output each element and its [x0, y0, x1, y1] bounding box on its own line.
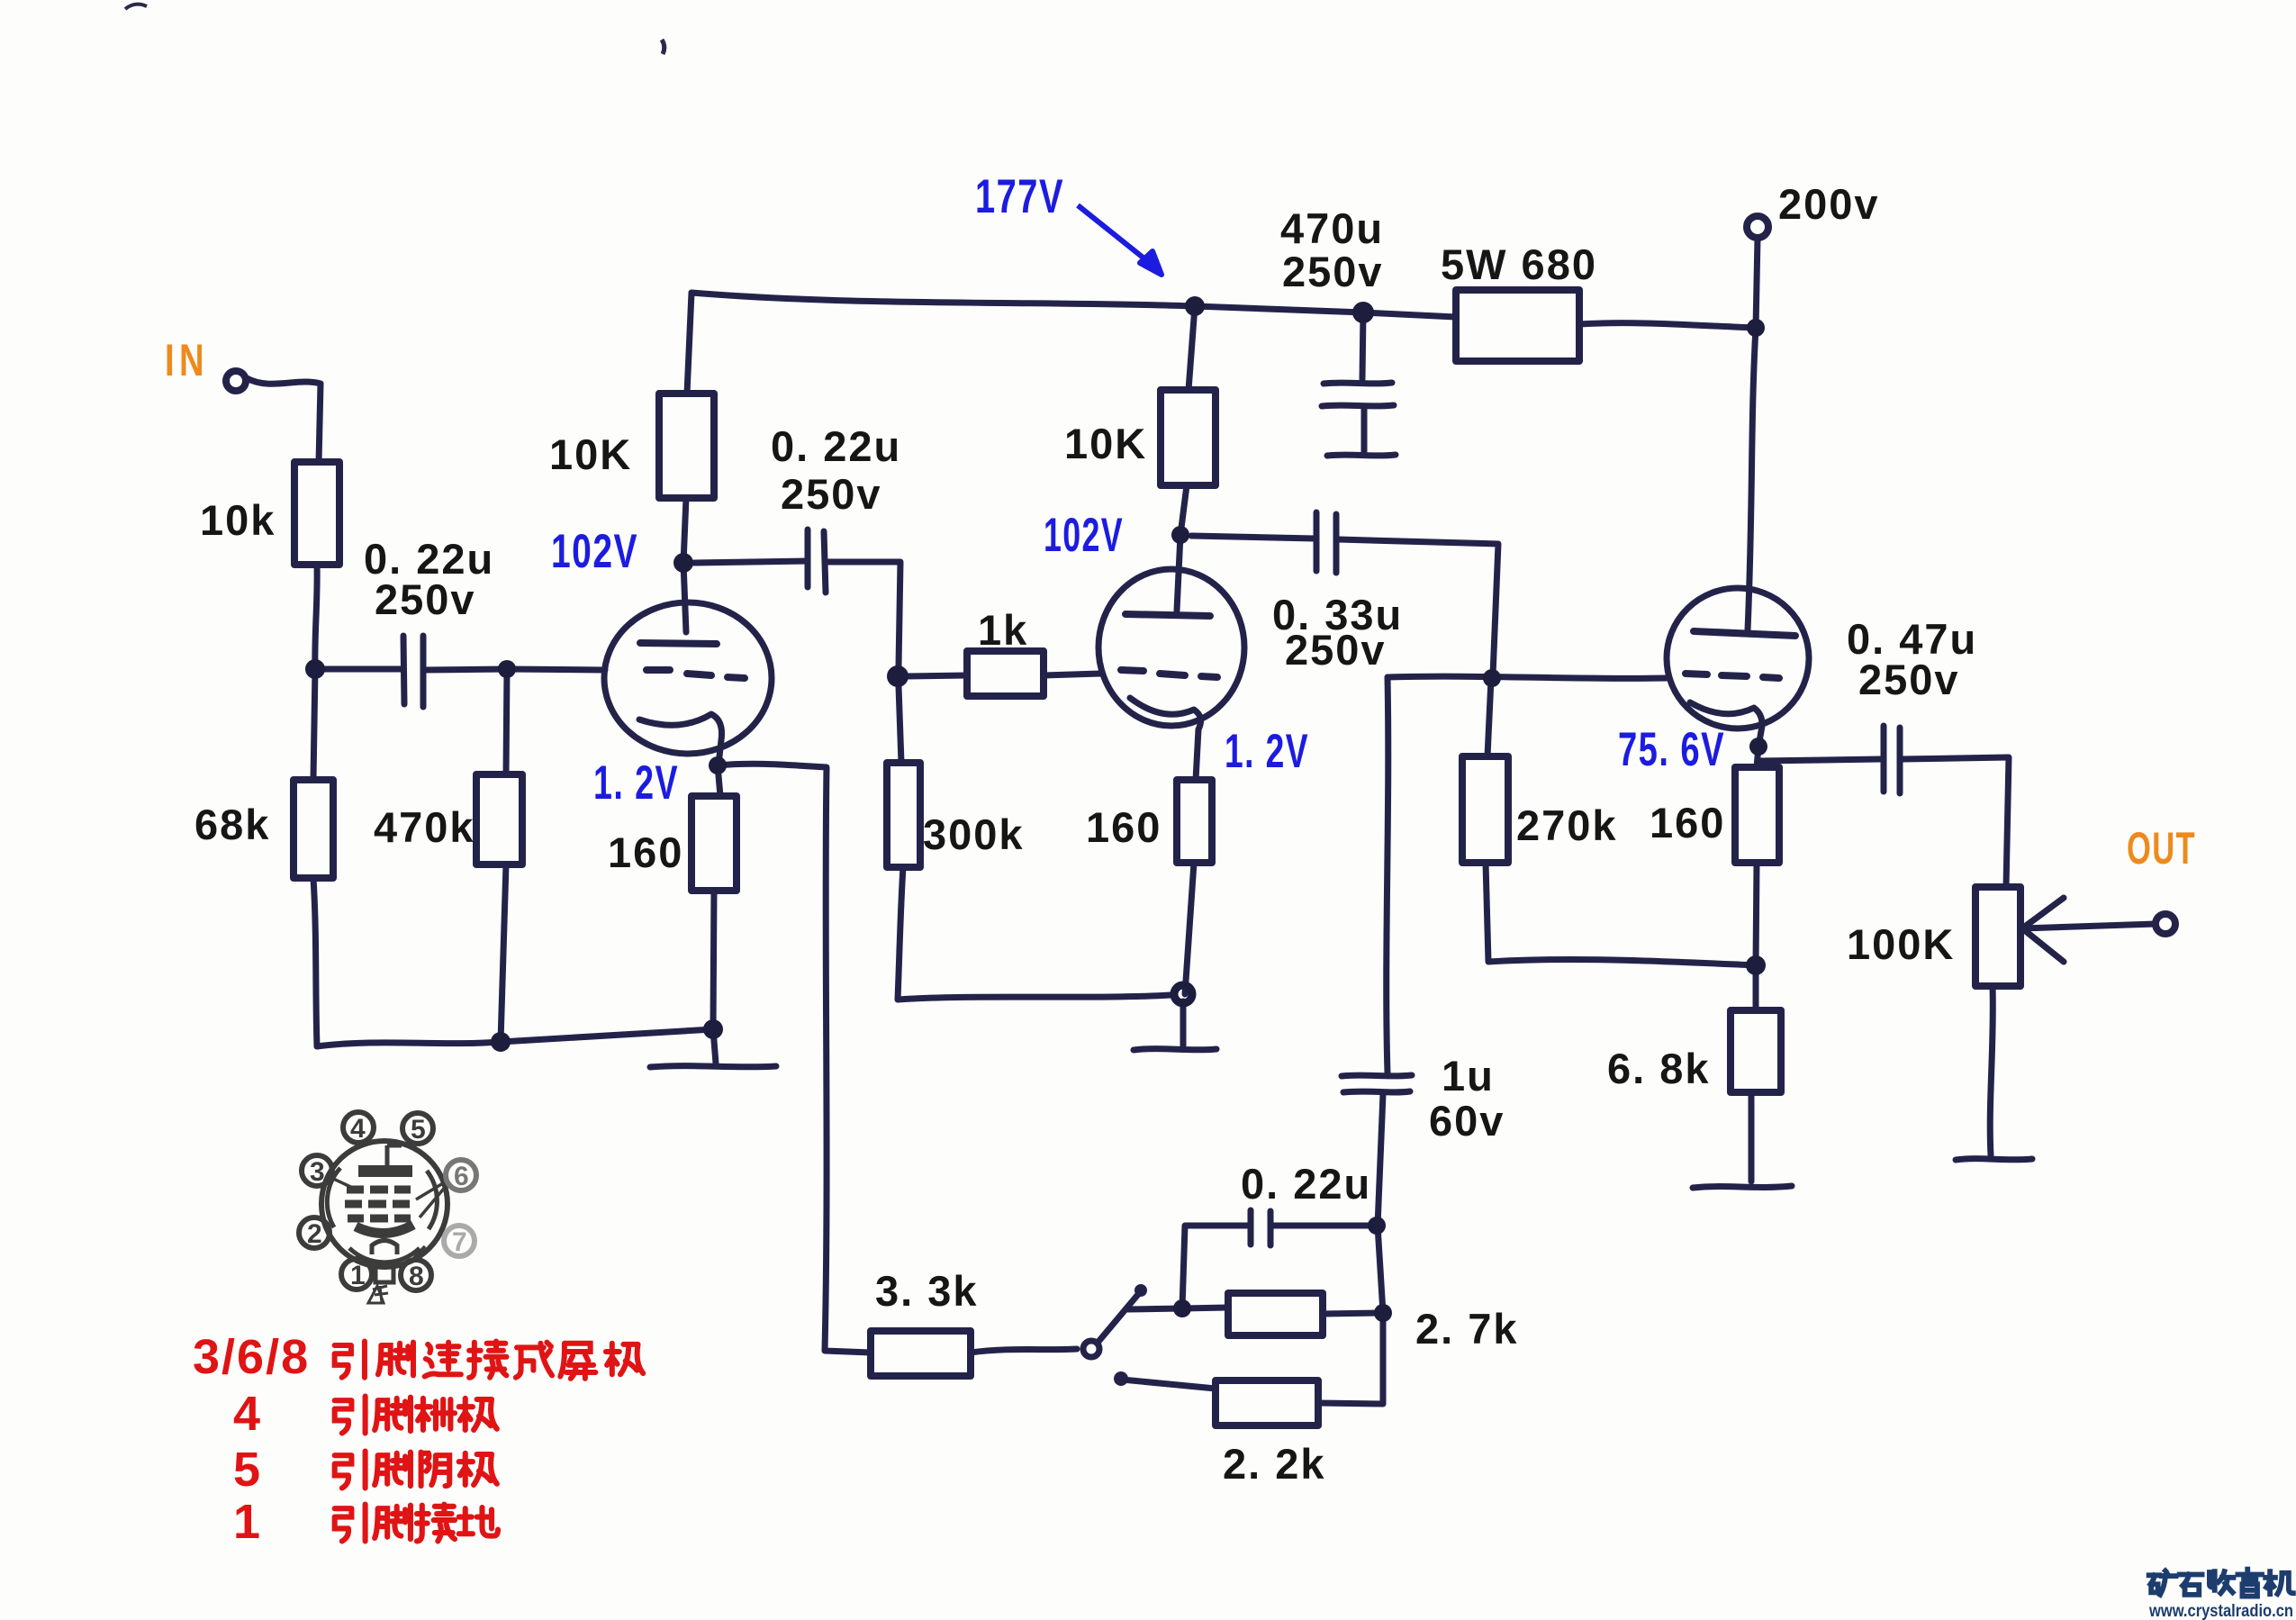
svg-text:3/6/8: 3/6/8 [193, 1330, 310, 1384]
wire C3 right corner down to node F [1338, 539, 1498, 675]
node J junction dot 470u [1352, 302, 1374, 323]
capacitor C3 0.33u 250v plate left [1314, 512, 1320, 571]
svg-text:5: 5 [233, 1443, 260, 1497]
capacitor C5 plate bottom [1322, 405, 1394, 406]
node IN terminal [226, 371, 246, 391]
wire SW1 fixed contact to node G2 to R15 2.7k [1128, 1308, 1228, 1309]
wire node A to C1 [315, 666, 403, 673]
capacitor C7 plate right [1268, 1211, 1274, 1245]
wire node H down to R13 6.8k [1753, 965, 1759, 1010]
node ground bus junction dot 160 [703, 1019, 723, 1039]
wire node G to node K to 2.2k corner [1318, 1226, 1383, 1404]
wire C2 to corner down to node D [827, 562, 900, 666]
socket grid dashes [345, 1190, 411, 1218]
wire C4 bottom down to node G [1378, 1094, 1383, 1226]
wire R15 right to node K [1323, 1313, 1383, 1314]
wire C7 right to node G [1272, 1223, 1376, 1229]
svg-text:75. 6V: 75. 6V [1618, 723, 1725, 776]
wire R9 bottom to stage2 ground node [1185, 863, 1194, 994]
svg-text:4: 4 [350, 1114, 366, 1144]
node F junction dot grid V3 [1483, 669, 1501, 687]
capacitor C7 0.22u plate left [1248, 1210, 1254, 1244]
legend line 4 text pin ground [335, 1505, 498, 1542]
socket outer circle [321, 1141, 447, 1267]
wire top B+ bus [692, 293, 1456, 317]
resistor R2 68k [294, 780, 333, 878]
wire R3 bottom to ground bus [501, 864, 506, 1042]
pin 7 [444, 1226, 475, 1256]
wire R13 bottom to ground [1749, 1092, 1755, 1181]
node E junction dot 102V stage2 [1171, 526, 1189, 544]
tube V2 cathode arc [1130, 698, 1201, 780]
node G junction dot [1368, 1217, 1386, 1235]
wire node A down to R2 68k [313, 669, 315, 780]
socket plate bar [358, 1165, 412, 1177]
pin 5 [402, 1113, 433, 1144]
wire node F down to R10 270k [1487, 679, 1491, 756]
wire B+ bus right of 5W680 to 200v node [1579, 323, 1756, 328]
wire 200v terminal to node I [1756, 238, 1758, 328]
node C junction dot 102V [673, 553, 693, 573]
capacitor C1 plate right [420, 636, 427, 707]
node OUT terminal [2156, 914, 2175, 934]
wire node J down to C5 [1362, 312, 1363, 379]
wire C1 to node B [423, 669, 507, 670]
svg-text:8: 8 [409, 1262, 424, 1291]
capacitor C2 0.22u 250v interstage plate left [805, 529, 811, 587]
svg-text:2. 2k: 2. 2k [1223, 1440, 1326, 1488]
capacitor C5 470u 250v plate top [1324, 383, 1392, 384]
wire node D down to R6 300k [899, 686, 901, 763]
node V1 cathode junction dot [709, 756, 727, 774]
svg-text:250v: 250v [1282, 248, 1384, 295]
svg-text:200v: 200v [1778, 180, 1880, 228]
svg-text:250v: 250v [1858, 656, 1960, 703]
pin 3 [302, 1155, 332, 1186]
pin 2 [299, 1217, 330, 1248]
resistor R6 300k [887, 763, 920, 867]
resistor R5 160 (V1 cathode) [692, 796, 737, 891]
wire V1 cathode node down to R5 160 [718, 765, 720, 796]
resistor R8 10K (V2 plate load) [1161, 390, 1216, 485]
svg-text:1. 2V: 1. 2V [1225, 725, 1309, 778]
capacitor C1 0.22u 250v input coupling plate left [403, 636, 404, 704]
resistor R15 2.7k [1228, 1293, 1323, 1335]
node stage2 ground ring [1174, 985, 1192, 1003]
legend red text [193, 1330, 310, 1549]
wire R12 bottom to node H [1756, 863, 1757, 965]
wire tail to R14 3.3k (from V1 cathode) [971, 1349, 1077, 1353]
svg-text:6: 6 [454, 1162, 469, 1191]
socket internal link pin8 [410, 1246, 425, 1263]
node A junction dot [305, 659, 325, 679]
resistor R9 160 (V2 cathode) [1177, 780, 1212, 863]
svg-text:10K: 10K [1064, 420, 1147, 467]
pin 1 [341, 1259, 372, 1290]
switch SW1 lever tip dot [1134, 1284, 1147, 1297]
arrow 177V pointer [1078, 205, 1162, 275]
resistor R13 6.8k [1731, 1010, 1781, 1092]
tube V3 cathode arc [1690, 702, 1762, 747]
wire grid line down to C4 1u [1387, 677, 1388, 1073]
wire R16 left terminal [1122, 1380, 1216, 1389]
svg-text:102V: 102V [1044, 509, 1124, 562]
svg-text:4: 4 [233, 1387, 260, 1441]
svg-text:IN: IN [165, 335, 209, 385]
node B junction dot [498, 660, 516, 678]
wire R6 bottom to stage2 ground node [898, 867, 1171, 1000]
socket cathode arc [356, 1225, 413, 1234]
wire VR1 bottom to ground [1990, 986, 1993, 1155]
node ground bus junction dot 470k [491, 1032, 511, 1052]
resistor R10 270k [1462, 756, 1508, 863]
svg-text:470k: 470k [374, 803, 475, 851]
wire node D to R7 1k [906, 675, 967, 676]
wire R2 bottom to ground bus [313, 878, 317, 1046]
wire node B down to R3 470k [506, 669, 507, 774]
tube V1 plate bar [640, 643, 717, 644]
svg-text:1u: 1u [1442, 1052, 1495, 1100]
svg-text:5W 680: 5W 680 [1441, 240, 1597, 288]
socket key tab [375, 1267, 393, 1282]
svg-text:1. 2V: 1. 2V [593, 756, 679, 810]
wire node G2 up to C7 0.22u [1182, 1226, 1249, 1308]
svg-text:10K: 10K [549, 430, 632, 478]
switch SW1 pivot ring [1083, 1341, 1099, 1357]
capacitor C6 0.47u 250v plate left [1881, 726, 1887, 792]
node I junction dot 200v [1747, 319, 1765, 337]
node K junction dot [1374, 1304, 1392, 1322]
tube V2 plate bar [1125, 614, 1210, 616]
socket plate lead [387, 1145, 402, 1165]
wire node I down to tube V3 plate [1748, 328, 1756, 630]
svg-text:250v: 250v [375, 575, 476, 623]
resistor R11 5W 680 [1456, 290, 1579, 361]
node 177V junction dot [1185, 296, 1205, 316]
svg-text:1: 1 [350, 1261, 366, 1290]
tube V2 plate lead [1177, 535, 1180, 611]
capacitor C6 plate right [1897, 728, 1903, 793]
pin 4 [343, 1112, 374, 1143]
svg-text:0. 22u: 0. 22u [1241, 1160, 1371, 1208]
ground stage 2 [1134, 1001, 1216, 1050]
tube V1 cathode arc [639, 714, 722, 765]
svg-text:7: 7 [452, 1227, 467, 1257]
tube V1 plate lead [683, 563, 686, 632]
socket internal link pin3 [330, 1177, 358, 1190]
wire node E to C3 [1191, 536, 1315, 538]
svg-text:3: 3 [310, 1157, 325, 1187]
resistor R16 2.2k [1216, 1380, 1318, 1425]
tube V1 grid dashes [646, 670, 745, 678]
svg-text:0. 22u: 0. 22u [771, 422, 901, 470]
tube V1 envelope [604, 602, 772, 754]
svg-text:160: 160 [608, 828, 683, 876]
wire node C to C2 [694, 561, 806, 563]
potentiometer VR1 wiper arrow [2022, 898, 2156, 962]
wire V3 cathode node to C6 0.47u [1758, 759, 1881, 761]
wire bus corner down to R4 10K [687, 293, 692, 394]
tube V2 envelope [1098, 569, 1244, 726]
node 200v terminal [1747, 216, 1768, 238]
resistor R12 160 (V3 cathode) [1735, 767, 1779, 863]
svg-text:6. 8k: 6. 8k [1607, 1045, 1711, 1092]
svg-text:177V: 177V [975, 170, 1064, 223]
node H junction dot [1746, 955, 1766, 975]
svg-text:470u: 470u [1280, 204, 1384, 252]
wire V3 cathode node down to R12 160 [1757, 747, 1758, 767]
svg-text:102V: 102V [551, 525, 638, 578]
resistor R7 1k (V2 grid stopper) [967, 651, 1044, 696]
svg-text:2. 7k: 2. 7k [1415, 1305, 1519, 1353]
wire V1 cathode node to long tail wire [718, 764, 871, 1353]
svg-text:270k: 270k [1516, 801, 1618, 849]
ground below R13 [1693, 1186, 1792, 1188]
socket bottom key notch [372, 1241, 397, 1255]
node V3 cathode junction dot [1749, 738, 1767, 756]
legend line 1 text pins connect as plate [335, 1341, 644, 1378]
svg-text:www.crystalradio.cn: www.crystalradio.cn [2148, 1602, 2293, 1620]
svg-text:OUT: OUT [2127, 823, 2196, 873]
socket inner ring arcs [327, 1168, 437, 1263]
capacitor C4 1u 60v plate top [1342, 1075, 1412, 1076]
ground below VR1 [1956, 1159, 2032, 1160]
legend line 3 text pin cathode [335, 1452, 497, 1489]
capacitor C4 plate bottom [1343, 1091, 1410, 1092]
wire bottom ground bus stage 1 [317, 1029, 713, 1046]
svg-text:2: 2 [307, 1219, 322, 1249]
svg-text:5: 5 [411, 1115, 426, 1145]
wire grid lead tube V1 [507, 669, 605, 670]
scan artifact tick top-middle [662, 40, 664, 54]
wire V3 grid line [1388, 676, 1667, 678]
socket internal link pin6 [416, 1181, 447, 1217]
pin 8 [401, 1260, 431, 1290]
switch SW1 lever [1098, 1292, 1140, 1343]
resistor R14 3.3k [871, 1331, 971, 1376]
potentiometer VR1 100K body [1975, 887, 2020, 986]
node G2 junction dot [1173, 1299, 1191, 1317]
svg-text:60v: 60v [1429, 1097, 1505, 1145]
svg-text:1k: 1k [978, 606, 1028, 654]
svg-text:100K: 100K [1847, 920, 1955, 968]
socket key triangle mark [368, 1286, 388, 1303]
svg-text:160: 160 [1650, 799, 1725, 846]
svg-text:250v: 250v [781, 470, 882, 518]
tube socket pinout diagram [321, 1141, 447, 1303]
scan artifact squiggle top-left [125, 5, 147, 9]
tube V2 grid dashes [1121, 670, 1217, 677]
capacitor C2 plate right [824, 531, 826, 593]
svg-text:3. 3k: 3. 3k [875, 1267, 979, 1315]
svg-text:1: 1 [233, 1495, 260, 1549]
legend line 2 text pin grid [335, 1397, 497, 1434]
tube V3 envelope [1667, 588, 1809, 729]
capacitor C3 plate right [1333, 514, 1340, 573]
tube V3 plate bar [1694, 631, 1795, 636]
ground stage 1 [650, 1029, 776, 1067]
svg-text:10k: 10k [200, 496, 276, 544]
watermark logo crystalradio [2149, 1570, 2293, 1597]
wire R5 bottom to ground node [713, 891, 714, 1029]
wire IN terminal to input resistor [247, 378, 321, 463]
wire R8 bottom to node E 102V [1180, 485, 1187, 535]
svg-text:300k: 300k [923, 810, 1025, 858]
pin 6 [446, 1160, 476, 1190]
wire R1 bottom to node A [315, 565, 317, 669]
R16 left terminal dot [1114, 1371, 1128, 1386]
node D junction dot [887, 665, 908, 687]
wire R7 to tube V2 grid [1044, 674, 1100, 675]
svg-text:250v: 250v [1285, 626, 1387, 674]
wire C5 bottom stub and ground bar [1327, 409, 1396, 456]
resistor R3 470k [476, 774, 522, 864]
resistor R4 10K (V1 plate load) [659, 394, 714, 498]
resistor R1 10k (input series) [294, 462, 339, 565]
wire node 177V down to R8 [1189, 306, 1195, 390]
wire C6 right corner down to potentiometer [1903, 757, 2009, 887]
svg-text:68k: 68k [194, 801, 270, 848]
wire R4 bottom to node C 102V [683, 498, 686, 563]
socket pin circles [299, 1112, 476, 1291]
wire R10 bottom corner to node H [1486, 863, 1756, 965]
tube V3 grid dashes [1686, 674, 1779, 678]
svg-text:160: 160 [1086, 803, 1162, 851]
